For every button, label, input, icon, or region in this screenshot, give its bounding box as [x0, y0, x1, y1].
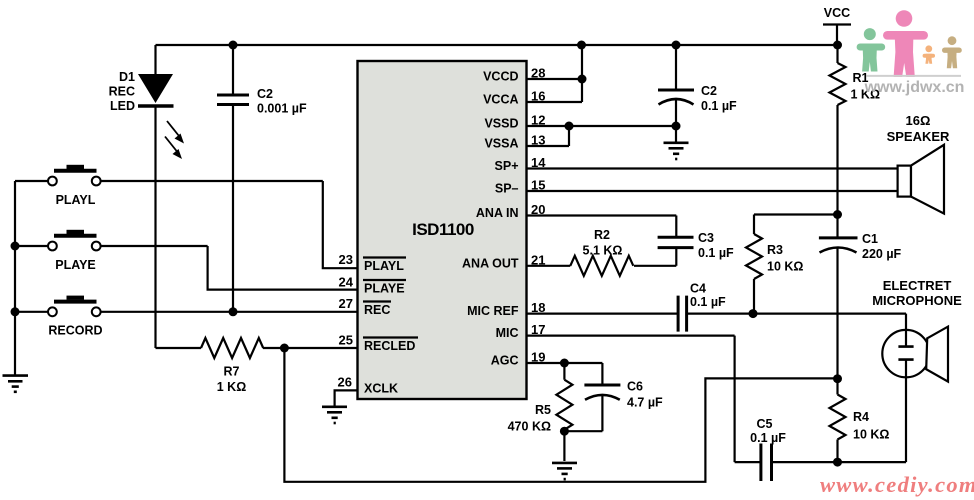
wire pin20 ANA IN to C3: [527, 216, 677, 238]
node dot R4 top: [833, 374, 842, 383]
resistor R1: [830, 45, 880, 215]
svg-text:PLAYE: PLAYE: [55, 258, 96, 272]
svg-text:SP+: SP+: [495, 159, 519, 173]
ground below C2 right: [664, 126, 689, 159]
VCC terminal: [823, 6, 851, 45]
pin 25 RECLED label: [339, 333, 418, 354]
svg-text:R7: R7: [224, 365, 240, 379]
node dot left rail PLAYE: [11, 242, 20, 251]
svg-text:VCCD: VCCD: [483, 70, 518, 84]
capacitor C5: [750, 417, 786, 481]
resistor R2: [570, 228, 633, 276]
svg-text:C2: C2: [701, 84, 717, 98]
wire pin28 VCCD to rail riser: [527, 45, 583, 102]
speaker symbol: [887, 113, 950, 214]
svg-text:23: 23: [339, 252, 353, 267]
svg-text:ANA IN: ANA IN: [476, 206, 519, 220]
wire C2 left vertical: [232, 45, 234, 312]
svg-text:XCLK: XCLK: [364, 382, 398, 396]
pin 19 AGC label: [491, 350, 546, 368]
svg-text:ISD1100: ISD1100: [412, 220, 474, 239]
svg-text:10 KΩ: 10 KΩ: [767, 260, 803, 274]
capacitor C3: [658, 231, 734, 266]
resistor R4: [830, 379, 890, 462]
svg-text:470 KΩ: 470 KΩ: [508, 420, 551, 434]
svg-text:MIC: MIC: [496, 326, 519, 340]
wire R7 to pin25: [156, 347, 358, 349]
svg-text:REC: REC: [109, 85, 135, 99]
pin 15 SP- label: [495, 178, 546, 196]
svg-text:VSSA: VSSA: [484, 137, 518, 151]
pin 17 MIC label: [496, 322, 546, 340]
capacitor C1 (220uF): [819, 215, 902, 379]
wire PLAYE to pin24: [15, 246, 358, 290]
svg-text:SPEAKER: SPEAKER: [887, 129, 950, 144]
node dot R3 bottom on MIC REF: [749, 309, 758, 318]
svg-text:www.cediy.com: www.cediy.com: [820, 472, 974, 497]
pin 14 SP+ label: [495, 155, 547, 173]
wire pin19 AGC to R5: [527, 362, 565, 364]
svg-text:5.1 KΩ: 5.1 KΩ: [583, 244, 623, 258]
svg-text:C1: C1: [862, 232, 878, 246]
svg-text:R2: R2: [594, 228, 610, 242]
pin 26 XCLK label: [338, 375, 399, 396]
wire pin15 SP- to speaker: [527, 190, 898, 192]
svg-text:0.001 µF: 0.001 µF: [257, 102, 307, 116]
svg-text:1 KΩ: 1 KΩ: [217, 380, 246, 394]
svg-text:PLAYL: PLAYL: [364, 259, 404, 273]
svg-text:0.1 µF: 0.1 µF: [701, 99, 737, 113]
svg-text:C5: C5: [757, 417, 773, 431]
wire PLAYL to pin23: [15, 181, 358, 268]
svg-text:ELECTRET: ELECTRET: [883, 278, 952, 293]
resistor R5: [508, 363, 573, 461]
svg-text:16Ω: 16Ω: [906, 113, 931, 128]
node dot left rail RECORD: [11, 307, 20, 316]
svg-text:AGC: AGC: [491, 354, 519, 368]
op-amp U1 ISD1100 chip body: [358, 61, 527, 399]
svg-text:24: 24: [339, 275, 354, 290]
LED light arrows: [165, 121, 184, 159]
svg-text:4.7 µF: 4.7 µF: [627, 396, 663, 410]
ground left rail: [3, 376, 29, 392]
svg-text:25: 25: [339, 333, 353, 348]
resistor R3: [746, 215, 838, 314]
svg-text:0.1 µF: 0.1 µF: [698, 246, 734, 260]
ground below R5: [552, 463, 577, 479]
resistor R7: [201, 338, 263, 394]
wire top VCC rail: [156, 44, 838, 46]
wire pin18 MIC REF to C4 and mic: [527, 313, 907, 315]
svg-text:VSSD: VSSD: [484, 117, 518, 131]
svg-text:MIC REF: MIC REF: [467, 304, 519, 318]
node dot AGC R5 top: [560, 359, 569, 368]
node dot VSSD VSSA junction: [565, 122, 574, 131]
wire pin14 SP+ to speaker: [527, 167, 898, 169]
pin 27 REC label: [339, 296, 391, 317]
capacitor C2 (0.1uF right): [658, 45, 737, 126]
svg-text:VCC: VCC: [824, 6, 850, 20]
pin 23 PLAYL label: [339, 252, 406, 273]
pin 28 VCCD label: [483, 66, 545, 84]
svg-text:SP–: SP–: [495, 182, 519, 196]
node dot R7 pin25 junction: [280, 344, 289, 353]
wire pin17 MIC down to C5: [527, 336, 907, 463]
node dot top rail at C2 right: [672, 41, 681, 50]
node dot pin28 riser: [578, 75, 587, 84]
svg-text:LED: LED: [110, 99, 135, 113]
wire RECLED junction down and bottom rail to R4 top: [284, 348, 837, 482]
capacitor C4: [678, 282, 726, 332]
wire pin21 ANA OUT to R2: [527, 265, 677, 267]
svg-text:0.1 µF: 0.1 µF: [690, 295, 726, 309]
node dot R1 bottom junction: [833, 210, 842, 219]
svg-text:220 µF: 220 µF: [862, 247, 902, 261]
svg-text:C3: C3: [698, 231, 714, 245]
wire LED branch vertical: [154, 45, 156, 348]
wire pin12 VSSD to ground line: [527, 126, 677, 146]
wire left rail: [14, 181, 16, 375]
pushbutton PLAYE: [48, 230, 101, 272]
pushbutton RECORD: [48, 296, 103, 338]
svg-text:RECLED: RECLED: [364, 339, 415, 353]
pin 20 ANA IN label: [476, 202, 546, 220]
svg-text:PLAYE: PLAYE: [364, 282, 405, 296]
wire RECORD to pin27: [15, 311, 358, 313]
node dot top rail at pin28 riser: [577, 41, 586, 50]
node dot R5 bottom C6: [560, 427, 569, 436]
svg-text:26: 26: [338, 375, 352, 390]
svg-text:PLAYL: PLAYL: [56, 193, 96, 207]
pin 24 PLAYE label: [339, 275, 406, 296]
capacitor C6 (4.7uF): [564, 363, 663, 431]
ground below XCLK: [322, 390, 358, 423]
pushbutton PLAYL: [48, 165, 101, 207]
watermark jdwx figures: [857, 10, 965, 96]
svg-text:10 KΩ: 10 KΩ: [853, 428, 889, 442]
label D1 REC LED: [109, 70, 135, 113]
pin 16 VCCA label: [483, 89, 545, 107]
svg-text:RECORD: RECORD: [48, 324, 102, 338]
node dot VSSD at C2 ground: [672, 122, 681, 131]
svg-text:R5: R5: [535, 403, 551, 417]
node dot top rail at R1: [833, 41, 842, 50]
LED D1: [138, 74, 174, 106]
pin 21 ANA OUT label: [462, 252, 545, 270]
svg-text:R3: R3: [767, 243, 783, 257]
svg-text:C4: C4: [690, 282, 706, 296]
svg-text:www.jdwx.cn: www.jdwx.cn: [864, 79, 965, 96]
svg-text:C6: C6: [627, 380, 643, 394]
capacitor C2 (0.001uF): [217, 87, 307, 116]
node dot top rail at C2 left: [229, 41, 238, 50]
svg-text:MICROPHONE: MICROPHONE: [872, 293, 962, 308]
svg-text:0.1 µF: 0.1 µF: [750, 431, 786, 445]
svg-text:ANA OUT: ANA OUT: [462, 256, 519, 270]
svg-text:D1: D1: [119, 70, 135, 84]
svg-text:REC: REC: [364, 303, 390, 317]
svg-text:C2: C2: [257, 87, 273, 101]
pin 18 MIC REF label: [467, 300, 545, 318]
node dot R4 bottom C5 line: [833, 458, 842, 467]
electret microphone: [872, 278, 962, 462]
svg-text:VCCA: VCCA: [483, 93, 518, 107]
node dot C2 on RECORD wire: [229, 307, 238, 316]
svg-text:27: 27: [339, 296, 353, 311]
pin 13 VSSA label: [484, 133, 545, 151]
pin 12 VSSD label: [484, 113, 545, 131]
svg-text:R4: R4: [853, 410, 869, 424]
